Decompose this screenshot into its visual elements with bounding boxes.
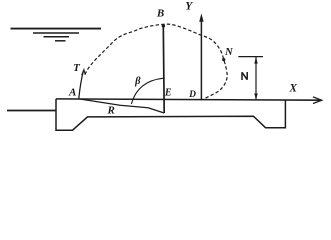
svg-text:A: A (68, 87, 76, 99)
water surface line 4 (55, 40, 66, 42)
Y axis arrowhead (199, 13, 203, 21)
Z dimension top arrowhead (254, 57, 257, 64)
tension arrow T head (82, 70, 86, 76)
svg-text:N: N (224, 47, 233, 58)
svg-text:Y: Y (185, 1, 193, 13)
svg-text:E: E (164, 88, 172, 99)
water surface line 2 (33, 32, 79, 34)
point B dot (162, 24, 165, 27)
tension arrow T line (79, 71, 84, 99)
svg-text:β: β (134, 76, 141, 87)
rod R (79, 99, 164, 113)
trajectory dashed curve (85, 24, 227, 100)
svg-text:R: R (107, 104, 115, 116)
svg-text:X: X (288, 83, 297, 95)
left mooring rod (7, 110, 56, 112)
water surface line long (11, 28, 102, 30)
X axis arrowhead (313, 97, 322, 104)
angle beta arc (131, 78, 163, 104)
svg-text:B: B (156, 7, 164, 19)
Y axis line (200, 20, 202, 101)
water surface line 3 (44, 36, 70, 38)
Z dimension bottom arrowhead (254, 93, 257, 100)
X axis line (56, 99, 321, 100)
Z dimension horizontal line (238, 56, 263, 58)
Z dimension vertical line (255, 57, 257, 100)
point N dot (222, 58, 225, 61)
barge hull outline (56, 99, 285, 130)
svg-text:D: D (188, 90, 196, 100)
line B-E vertical (162, 26, 165, 113)
label Z rotated (242, 72, 247, 80)
